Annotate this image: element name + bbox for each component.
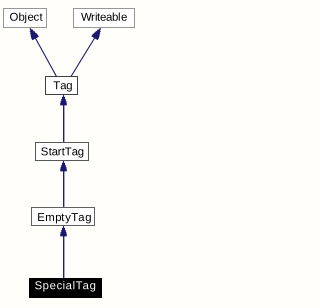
edge StartTag -> Tag bbox=[60, 95, 67, 142]
edge SpecialTag -> EmptyTag bbox=[60, 226, 67, 278]
edge Tag -> Writeable bbox=[71, 26, 104, 77]
node Object bbox=[4, 9, 47, 28]
edge EmptyTag -> StartTag bbox=[60, 161, 67, 207]
node SpecialTag (current class, black) bbox=[30, 279, 102, 298]
node Writeable bbox=[74, 9, 135, 28]
class inheritance diagram bbox=[0, 0, 138, 308]
node StartTag bbox=[36, 143, 89, 161]
node Tag bbox=[46, 77, 78, 95]
edge Tag -> Object bbox=[27, 26, 57, 76]
node EmptyTag bbox=[32, 208, 95, 226]
